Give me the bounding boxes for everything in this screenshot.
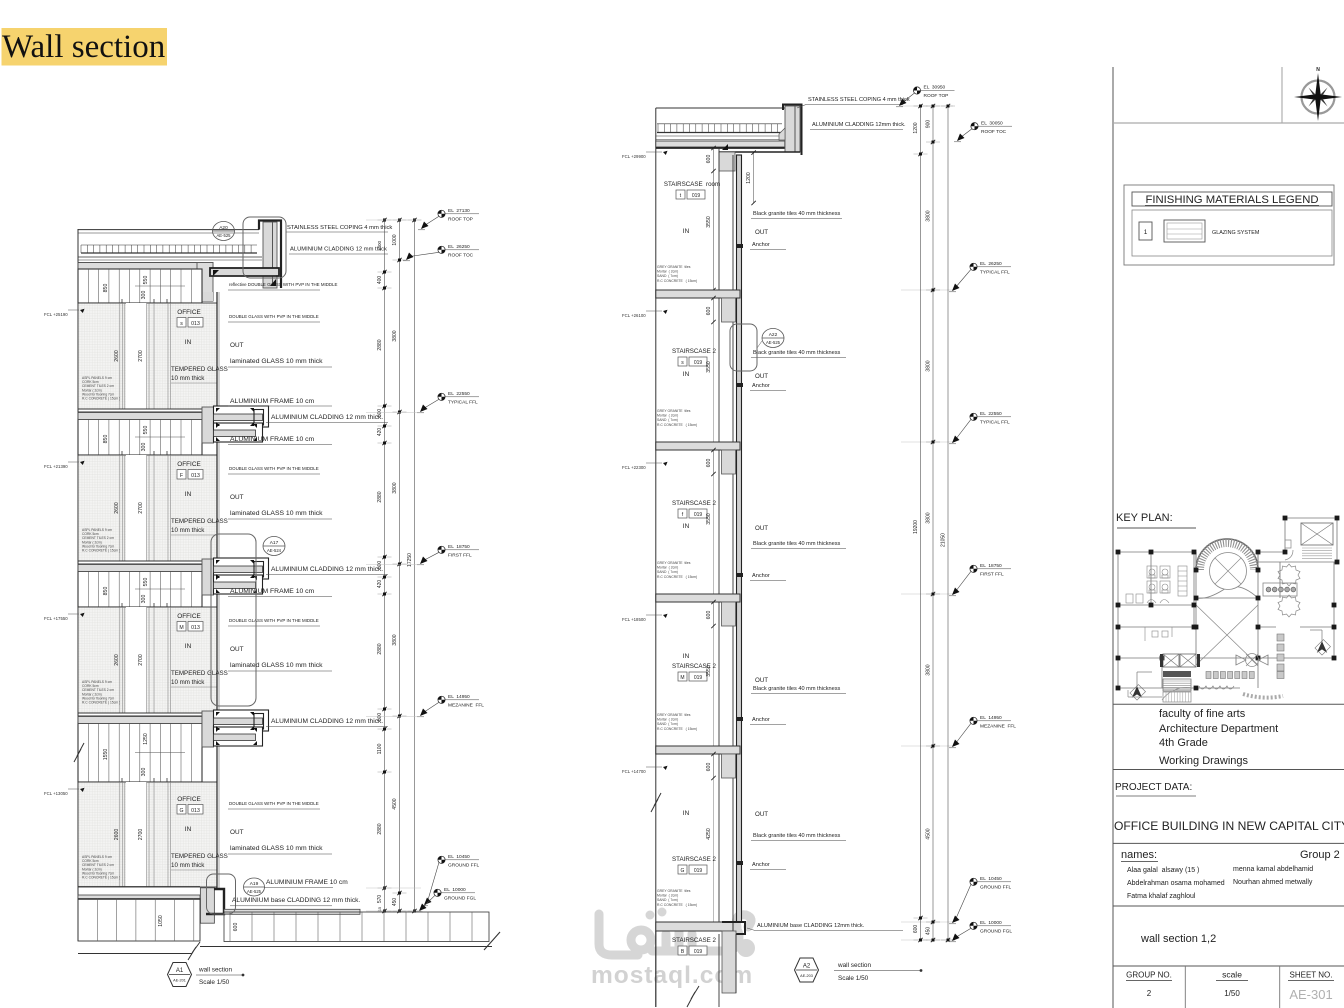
- svg-text:FCL +29900: FCL +29900: [622, 154, 646, 159]
- A1 left wall break symbol: [74, 743, 84, 762]
- svg-text:2700: 2700: [138, 654, 144, 666]
- svg-text:450: 450: [926, 927, 932, 936]
- svg-text:Scale 1/50: Scale 1/50: [838, 975, 869, 982]
- svg-text:A17: A17: [270, 540, 279, 546]
- svg-text:ALUMINIUM CLADDING 12 mm thick: ALUMINIUM CLADDING 12 mm thick: [290, 247, 387, 253]
- svg-text:ALUMINIUM FRAME 10 cm: ALUMINIUM FRAME 10 cm: [230, 588, 315, 595]
- finishing materials legend row: [1132, 210, 1332, 256]
- svg-text:300: 300: [141, 768, 147, 777]
- svg-text:A19: A19: [250, 881, 259, 887]
- svg-text:ROOF TOC: ROOF TOC: [448, 253, 474, 259]
- svg-text:570: 570: [377, 895, 383, 904]
- svg-text:013: 013: [191, 625, 200, 631]
- svg-text:FCL +14700: FCL +14700: [622, 769, 646, 774]
- A1 office 3 interior partition lines: [119, 607, 121, 713]
- svg-text:STAINLESS STEEL COPING 4 mm th: STAINLESS STEEL COPING 4 mm thick: [808, 97, 910, 103]
- A2 parapet dim 1200: [753, 153, 755, 203]
- svg-text:FCL +25190: FCL +25190: [44, 312, 68, 317]
- svg-text:R.C CONCRETE ( 15cm ): R.C CONCRETE ( 15cm ): [82, 876, 120, 880]
- svg-text:R.C CONCRETE ( 15cm ): R.C CONCRETE ( 15cm ): [82, 701, 120, 705]
- A1 base wall block: [200, 888, 214, 923]
- svg-text:019: 019: [694, 949, 703, 955]
- A1 roof slab gray band: [78, 263, 213, 270]
- svg-text:10 mm thick: 10 mm thick: [171, 679, 205, 686]
- svg-text:Architecture Department: Architecture Department: [1159, 723, 1278, 735]
- svg-text:EL 10450: EL 10450: [980, 876, 1002, 882]
- A2 roof slab lines: [656, 135, 782, 137]
- svg-text:G: G: [179, 808, 183, 814]
- svg-text:3800: 3800: [392, 482, 398, 493]
- svg-text:SAND ( 7cm): SAND ( 7cm): [657, 722, 678, 726]
- svg-text:Black granite tiles 40 mm thic: Black granite tiles 40 mm thickness: [753, 211, 841, 217]
- svg-text:menna kamal abdelhamid: menna kamal abdelhamid: [1233, 866, 1313, 873]
- A2 floor slab 2 gray band: [656, 442, 740, 450]
- key plan lower stair flight: [1163, 692, 1191, 702]
- svg-text:Alaa galal alsawy (15 ): Alaa galal alsawy (15 ): [1127, 867, 1199, 874]
- watermark mostaql logo: [599, 914, 751, 955]
- A1 floor slab 4 gray band: [78, 717, 202, 724]
- svg-text:GROUND FGL: GROUND FGL: [980, 929, 1012, 935]
- A2 dimension chain inner: [920, 106, 922, 940]
- A2 wall block below slab 3: [722, 602, 736, 626]
- svg-text:600: 600: [706, 763, 712, 772]
- svg-text:600: 600: [706, 307, 712, 316]
- svg-text:R.C CONCRETE ( 15cm): R.C CONCRETE ( 15cm): [657, 727, 697, 731]
- svg-text:019: 019: [694, 360, 703, 366]
- svg-text:Anchor: Anchor: [752, 862, 770, 868]
- svg-text:2880: 2880: [377, 339, 383, 350]
- svg-text:2880: 2880: [377, 491, 383, 502]
- svg-text:IN: IN: [185, 826, 192, 833]
- svg-text:850: 850: [103, 435, 109, 444]
- svg-text:ALUMINIUM CLADDING 12 mm thick: ALUMINIUM CLADDING 12 mm thick.: [271, 414, 383, 421]
- A1 parapet coping: [263, 222, 277, 288]
- svg-text:10 mm thick: 10 mm thick: [171, 862, 205, 869]
- svg-text:013: 013: [191, 321, 200, 327]
- svg-text:FCL +21390: FCL +21390: [44, 464, 68, 469]
- svg-text:AE-525: AE-525: [247, 889, 262, 894]
- svg-text:DOUBLE GLASS WITH PVP IN THE M: DOUBLE GLASS WITH PVP IN THE MIDDLE: [229, 618, 319, 623]
- svg-text:019: 019: [694, 868, 703, 874]
- svg-text:1300: 1300: [377, 240, 382, 251]
- svg-text:IN: IN: [185, 339, 192, 346]
- A2 room dim 3550 floor 2: [713, 474, 715, 594]
- A1 office 2 interior partition lines: [119, 455, 121, 561]
- A1 office 4 white duct band: [126, 782, 147, 887]
- A2 ground room dim 4250: [713, 778, 715, 922]
- svg-text:wall section: wall section: [837, 962, 871, 969]
- A2 roof tile band: [657, 123, 782, 125]
- A1 dimension chain inner: [384, 220, 386, 911]
- svg-text:SAND ( 7cm): SAND ( 7cm): [657, 570, 678, 574]
- A2 roof room dim 3550: [713, 171, 715, 290]
- A2 level extension lines: [901, 105, 953, 107]
- A2 floor slab 4 gray band: [656, 746, 740, 754]
- A2 basement break symbol: [687, 986, 699, 1007]
- svg-text:EL 30950: EL 30950: [924, 85, 946, 91]
- svg-text:ROOF TOP: ROOF TOP: [448, 217, 473, 223]
- svg-text:names:: names:: [1121, 849, 1157, 861]
- key plan toilets block: [1126, 566, 1187, 603]
- svg-text:ALUMINIUM CLADDING 12 mm thick: ALUMINIUM CLADDING 12 mm thick.: [271, 566, 383, 573]
- svg-text:019: 019: [694, 512, 703, 518]
- svg-text:R.C CONCRETE ( 15cm): R.C CONCRETE ( 15cm): [657, 423, 697, 427]
- A1 office zone 3 stipple: [78, 607, 217, 713]
- svg-text:550: 550: [143, 426, 149, 435]
- A1 office 1 interior partition lines: [119, 303, 121, 409]
- svg-text:500: 500: [377, 561, 383, 570]
- A1 foundation hatch strip: [78, 899, 200, 941]
- A1 left wall edge line: [77, 229, 79, 941]
- svg-text:OUT: OUT: [755, 525, 768, 532]
- svg-text:laminated GLASS 10 mm thick: laminated GLASS 10 mm thick: [230, 662, 323, 669]
- svg-text:A22: A22: [769, 332, 778, 338]
- svg-text:OUT: OUT: [755, 373, 768, 380]
- svg-text:Mortar ( 2cm): Mortar ( 2cm): [657, 566, 678, 570]
- svg-text:450: 450: [392, 898, 398, 907]
- svg-text:FIRST FFL: FIRST FFL: [448, 553, 472, 559]
- A1 floor slab 4 lines: [78, 712, 202, 714]
- svg-text:Anchor: Anchor: [752, 242, 770, 248]
- svg-text:TYPICAL FFL: TYPICAL FFL: [980, 270, 1010, 276]
- svg-text:4500: 4500: [926, 828, 932, 839]
- callout circle A19 AE-525: [244, 878, 265, 896]
- svg-text:2600: 2600: [114, 829, 120, 841]
- key plan elevators: [1163, 654, 1179, 667]
- key plan right wing notches: [1285, 540, 1293, 560]
- svg-text:4250: 4250: [706, 828, 712, 840]
- key plan columns: [1116, 550, 1121, 555]
- svg-text:R.C CONCRETE ( 15cm ): R.C CONCRETE ( 15cm ): [82, 397, 120, 401]
- callout box A22: [730, 324, 757, 371]
- svg-text:Mortar ( 2cm): Mortar ( 2cm): [657, 270, 678, 274]
- A1 foundation break symbol: [188, 942, 200, 960]
- svg-text:ALUMINIUM FRAME 10 cm: ALUMINIUM FRAME 10 cm: [230, 398, 315, 405]
- A1 floor slab 3 lines: [78, 560, 202, 562]
- svg-text:IN: IN: [683, 810, 690, 817]
- svg-text:600: 600: [233, 923, 239, 932]
- svg-text:3800: 3800: [926, 210, 932, 221]
- title block left border: [1112, 67, 1114, 1008]
- svg-text:FCL +13050: FCL +13050: [44, 791, 68, 796]
- svg-text:EL 10450: EL 10450: [448, 854, 470, 860]
- svg-text:OUT: OUT: [755, 677, 768, 684]
- key plan right wing hatch box: [1301, 523, 1333, 545]
- svg-text:G: G: [681, 868, 685, 874]
- svg-text:2700: 2700: [138, 829, 144, 841]
- svg-text:OFFICE: OFFICE: [177, 309, 200, 316]
- A1 floor slab 2 lines: [78, 408, 202, 410]
- svg-text:EL 26250: EL 26250: [980, 261, 1002, 267]
- svg-text:STAIRSCASE 2: STAIRSCASE 2: [672, 937, 716, 944]
- svg-text:Fatma khalaf zaghloul: Fatma khalaf zaghloul: [1127, 893, 1196, 900]
- key plan entrance dotted arc: [1243, 694, 1283, 698]
- svg-text:Working Drawings: Working Drawings: [1159, 755, 1249, 767]
- svg-text:IN: IN: [683, 228, 690, 235]
- svg-text:STAIRSCASE 2: STAIRSCASE 2: [672, 500, 716, 507]
- A2 dimension chain floors: [932, 106, 934, 940]
- svg-text:21050: 21050: [941, 533, 947, 547]
- svg-text:Black granite tiles 40 mm thic: Black granite tiles 40 mm thickness: [753, 541, 841, 547]
- svg-text:EL 14950: EL 14950: [448, 694, 470, 700]
- svg-text:Wall section: Wall section: [2, 29, 165, 65]
- svg-text:GREY GRANITE tiles: GREY GRANITE tiles: [657, 889, 691, 893]
- svg-text:laminated GLASS 10 mm thick: laminated GLASS 10 mm thick: [230, 510, 323, 517]
- svg-text:600: 600: [706, 611, 712, 620]
- key plan bottom stair: [1163, 671, 1191, 677]
- A1 roof slab lines: [78, 256, 262, 258]
- svg-text:ROOF TOC: ROOF TOC: [981, 129, 1007, 135]
- svg-text:EL 18750: EL 18750: [980, 563, 1002, 569]
- A1 office zone 2 stipple: [78, 455, 217, 561]
- svg-text:PROJECT DATA:: PROJECT DATA:: [1115, 782, 1192, 793]
- svg-text:EL 22550: EL 22550: [980, 411, 1002, 417]
- key plan rotunda door: [1246, 654, 1259, 667]
- A1 floor slab 2 gray band: [78, 413, 202, 420]
- svg-text:N: N: [1316, 67, 1320, 73]
- A1 section tag hexagon: [168, 963, 192, 987]
- svg-text:AE-524: AE-524: [267, 548, 282, 553]
- title block divider sheet title: [1113, 905, 1344, 907]
- svg-text:EL 26250: EL 26250: [448, 244, 470, 250]
- A1 cladding arm detail at slab 2: [202, 407, 214, 443]
- svg-text:STAIRSCASE 2: STAIRSCASE 2: [672, 856, 716, 863]
- svg-text:2600: 2600: [114, 502, 120, 514]
- key plan canopy scallops: [1199, 686, 1234, 689]
- svg-text:Mortar ( 2cm): Mortar ( 2cm): [657, 414, 678, 418]
- svg-text:KEY PLAN:: KEY PLAN:: [1116, 512, 1173, 524]
- A1 dimension chain floor heights: [399, 220, 401, 911]
- svg-text:DOUBLE GLASS WITH PVP IN THE M: DOUBLE GLASS WITH PVP IN THE MIDDLE: [229, 314, 319, 319]
- svg-text:Mortar ( 2cm): Mortar ( 2cm): [657, 718, 678, 722]
- svg-text:Anchor: Anchor: [752, 717, 770, 723]
- A2 stair wall inner face: [718, 148, 720, 922]
- svg-text:550: 550: [143, 578, 149, 587]
- svg-text:wall section 1,2: wall section 1,2: [1140, 933, 1216, 945]
- A1 ceiling box floor 1: [78, 269, 202, 303]
- svg-text:GROUND FFL: GROUND FFL: [980, 885, 1012, 891]
- svg-text:1200: 1200: [913, 122, 919, 133]
- callout box A19: [207, 874, 236, 914]
- svg-text:4500: 4500: [392, 798, 398, 809]
- svg-text:OUT: OUT: [755, 229, 768, 236]
- callout circle A20 AE-525: [213, 222, 235, 241]
- svg-text:3550: 3550: [706, 665, 712, 677]
- svg-text:2700: 2700: [138, 350, 144, 362]
- svg-text:Anchor: Anchor: [752, 573, 770, 579]
- svg-text:013: 013: [191, 808, 200, 814]
- svg-text:10 mm thick: 10 mm thick: [171, 527, 205, 534]
- svg-text:420: 420: [377, 580, 383, 589]
- svg-text:Anchor: Anchor: [752, 383, 770, 389]
- svg-text:600: 600: [913, 925, 919, 934]
- svg-text:OUT: OUT: [230, 646, 244, 653]
- A1 cladding arm detail at slab 3: [202, 559, 214, 595]
- svg-text:SHEET NO.: SHEET NO.: [1290, 971, 1333, 980]
- A2 wall block below slab 1: [722, 298, 736, 322]
- A1 ceiling box floor 3: [78, 571, 202, 607]
- A1 level extension lines: [366, 219, 421, 221]
- svg-text:FCL +17550: FCL +17550: [44, 616, 68, 621]
- svg-text:300: 300: [141, 443, 147, 452]
- svg-text:420: 420: [377, 428, 383, 437]
- svg-text:OUT: OUT: [230, 342, 244, 349]
- svg-text:IN: IN: [683, 371, 690, 378]
- A2 basement walls: [655, 931, 657, 1007]
- svg-text:3800: 3800: [926, 512, 932, 523]
- svg-text:OUT: OUT: [230, 494, 244, 501]
- svg-text:600: 600: [706, 459, 712, 468]
- svg-text:GREY GRANITE tiles: GREY GRANITE tiles: [657, 561, 691, 565]
- svg-text:Abdelrahman osama mohamed: Abdelrahman osama mohamed: [1127, 880, 1225, 887]
- A2 stair wall outer face: [732, 155, 734, 922]
- svg-text:1250: 1250: [143, 733, 149, 745]
- svg-text:OFFICE: OFFICE: [177, 461, 200, 468]
- svg-text:SAND ( 7cm): SAND ( 7cm): [657, 274, 678, 278]
- svg-text:GROUP NO.: GROUP NO.: [1126, 971, 1172, 980]
- A1 base cladding dark L: [206, 889, 224, 914]
- svg-text:500: 500: [377, 713, 383, 722]
- A1 ceiling box floor 4: [78, 723, 202, 782]
- title block compass cell divider: [1281, 67, 1283, 123]
- svg-text:OFFICE BUILDING IN NEW CAPITAL: OFFICE BUILDING IN NEW CAPITAL CITY: [1114, 819, 1344, 833]
- svg-text:2880: 2880: [377, 823, 383, 834]
- compass rose: [1302, 81, 1335, 114]
- svg-text:EL 22550: EL 22550: [448, 391, 470, 397]
- A1 dimension chain total: [414, 220, 416, 911]
- A2 wall dim 600 at slab 2: [713, 450, 715, 474]
- svg-text:EL 27130: EL 27130: [448, 208, 470, 214]
- svg-text:ALUMINIUM FRAME 10 cm: ALUMINIUM FRAME 10 cm: [266, 879, 348, 886]
- svg-text:10 mm thick: 10 mm thick: [171, 375, 205, 382]
- svg-text:3550: 3550: [706, 361, 712, 373]
- svg-text:GREY GRANITE tiles: GREY GRANITE tiles: [657, 713, 691, 717]
- svg-text:1100: 1100: [377, 743, 383, 754]
- title block divider project data: [1113, 769, 1344, 771]
- svg-text:IN: IN: [683, 523, 690, 530]
- svg-text:2600: 2600: [114, 654, 120, 666]
- svg-text:A20: A20: [219, 225, 228, 231]
- svg-text:600: 600: [706, 155, 712, 164]
- key plan north arrows: [1133, 687, 1142, 697]
- svg-text:AE-525: AE-525: [766, 340, 781, 345]
- A2 floor slab 1 gray band: [656, 290, 740, 298]
- svg-text:SAND ( 7cm): SAND ( 7cm): [657, 898, 678, 902]
- svg-text:EL 10000: EL 10000: [980, 920, 1002, 926]
- svg-text:ALUMINIUM FRAME 10 cm: ALUMINIUM FRAME 10 cm: [230, 436, 315, 443]
- svg-text:15: 15: [378, 907, 382, 911]
- svg-text:019: 019: [694, 675, 703, 681]
- svg-text:A2: A2: [803, 964, 811, 970]
- svg-text:1050: 1050: [158, 915, 164, 927]
- svg-text:DOUBLE GLASS WITH PVP IN THE M: DOUBLE GLASS WITH PVP IN THE MIDDLE: [229, 466, 319, 471]
- svg-text:IN: IN: [185, 491, 192, 498]
- callout box A17 tall: [211, 534, 256, 706]
- A2 interior left edge line: [655, 108, 657, 1007]
- callout box around coping A20: [243, 217, 286, 278]
- key plan scalloped columns: [1278, 564, 1300, 586]
- callout circle A17 AE-524: [263, 537, 285, 556]
- svg-text:400: 400: [377, 276, 383, 285]
- svg-text:GREY GRANITE tiles: GREY GRANITE tiles: [657, 409, 691, 413]
- svg-text:3550: 3550: [706, 513, 712, 525]
- svg-text:M: M: [680, 675, 684, 681]
- svg-text:ALUMINIUM base CLADDING 12mm t: ALUMINIUM base CLADDING 12mm thick.: [757, 923, 865, 929]
- svg-text:STAIRSCASE 2: STAIRSCASE 2: [672, 348, 716, 355]
- A2 wall dim 600 at slab 1: [713, 298, 715, 322]
- svg-text:3800: 3800: [392, 634, 398, 645]
- svg-text:Black granite tiles 40 mm thic: Black granite tiles 40 mm thickness: [753, 350, 841, 356]
- A2 wall dim 600 at slab 3: [713, 602, 715, 626]
- svg-text:2880: 2880: [377, 643, 383, 654]
- A1 base slab: [78, 886, 200, 888]
- svg-text:OFFICE: OFFICE: [177, 796, 200, 803]
- A2 roof slab bottom bar: [656, 147, 800, 149]
- svg-text:GROUND FFL: GROUND FFL: [448, 863, 480, 869]
- A1 office 4 interior partition lines: [119, 782, 121, 887]
- key plan five dots cluster: [1263, 583, 1297, 596]
- key plan small rooms mid-left: [1145, 627, 1172, 641]
- svg-text:1550: 1550: [103, 749, 109, 761]
- svg-text:AE-525: AE-525: [217, 233, 232, 238]
- svg-text:ALUMINIUM CLADDING 12 mm thick: ALUMINIUM CLADDING 12 mm thick.: [271, 718, 383, 725]
- svg-text:2: 2: [1147, 989, 1152, 998]
- svg-text:EL 10000: EL 10000: [444, 887, 466, 893]
- key plan south colonnade hatch squares: [1206, 634, 1284, 679]
- svg-text:R.C CONCRETE ( 15cm): R.C CONCRETE ( 15cm): [657, 903, 697, 907]
- svg-text:500: 500: [377, 409, 383, 418]
- A2 roof wall block: [719, 152, 735, 171]
- svg-text:17250: 17250: [407, 553, 413, 567]
- svg-text:SAND ( 7cm): SAND ( 7cm): [657, 418, 678, 422]
- A1 office 3 white duct band: [126, 607, 147, 713]
- svg-text:300: 300: [141, 595, 147, 604]
- A2 wall dim 600 at slab 4: [713, 754, 715, 778]
- svg-text:3550: 3550: [706, 216, 712, 228]
- svg-text:MEZANINE FFL: MEZANINE FFL: [448, 703, 484, 709]
- A1 roof tile band: [81, 244, 257, 246]
- A2 dimension chain total: [947, 106, 949, 940]
- svg-text:1200: 1200: [746, 172, 752, 184]
- svg-text:FCL +26100: FCL +26100: [622, 313, 646, 318]
- svg-text:1/50: 1/50: [1224, 989, 1240, 998]
- svg-text:laminated GLASS 10 mm thick: laminated GLASS 10 mm thick: [230, 358, 323, 365]
- key plan semicircular stair: [1196, 539, 1258, 570]
- svg-text:ROOF TOP: ROOF TOP: [924, 93, 949, 99]
- A1 parapet bottom bar: [210, 268, 279, 276]
- svg-text:M: M: [179, 625, 183, 631]
- A2 floor slab 3 gray band: [656, 594, 740, 602]
- svg-text:Group 2: Group 2: [1300, 849, 1340, 861]
- A1 curtain wall glass line: [216, 292, 218, 890]
- svg-text:2700: 2700: [138, 502, 144, 514]
- svg-text:EL 14950: EL 14950: [980, 715, 1002, 721]
- A2 ground slab: [656, 922, 733, 931]
- A2 section tag hexagon: [795, 958, 819, 982]
- svg-text:IN: IN: [683, 653, 690, 660]
- A2 room dim 3550 floor 1: [713, 322, 715, 442]
- key plan drawing walls: [1118, 518, 1337, 688]
- svg-text:EL 30050: EL 30050: [981, 120, 1003, 126]
- svg-text:2600: 2600: [114, 350, 120, 362]
- svg-text:R.C CONCRETE ( 15cm ): R.C CONCRETE ( 15cm ): [82, 549, 120, 553]
- svg-text:OFFICE: OFFICE: [177, 613, 200, 620]
- svg-text:TYPICAL FFL: TYPICAL FFL: [448, 400, 478, 406]
- svg-text:Black granite tiles 40 mm thic: Black granite tiles 40 mm thickness: [753, 686, 841, 692]
- svg-text:DOUBLE GLASS WITH PVP IN THE M: DOUBLE GLASS WITH PVP IN THE MIDDLE: [229, 801, 319, 806]
- A1 roof top line: [78, 229, 259, 231]
- svg-text:GLAZING SYSTEM: GLAZING SYSTEM: [1212, 230, 1260, 236]
